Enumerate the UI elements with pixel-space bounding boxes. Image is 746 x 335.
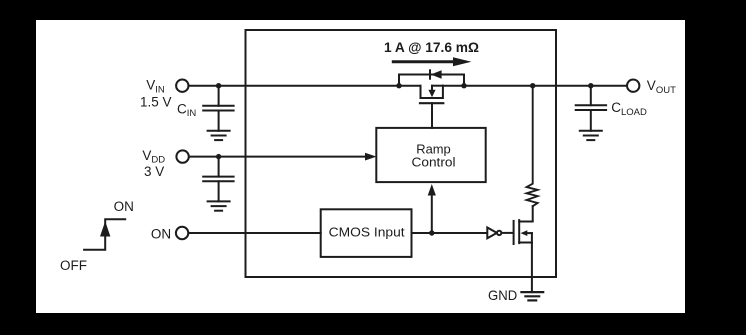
- junction CLOAD tap: [588, 83, 593, 88]
- wire VDD rail: [189, 156, 366, 158]
- wire Q2 source to GND: [531, 243, 533, 293]
- svg-text:Control: Control: [412, 156, 456, 170]
- arrow into Ramp Control: [365, 153, 377, 161]
- capacitor CIN: [203, 106, 233, 111]
- arrow up to Ramp Control: [428, 184, 436, 233]
- body diode D1: [399, 70, 464, 86]
- resistor R1: [527, 86, 538, 207]
- terminal VOUT: [627, 80, 639, 92]
- wire rail to VOUT: [443, 85, 627, 87]
- wire CIN lead bottom: [218, 111, 220, 131]
- block Ramp Control: [376, 128, 485, 182]
- capacitor CVDD: [203, 157, 233, 202]
- svg-text:1.5 V: 1.5 V: [140, 95, 172, 110]
- terminal VDD: [176, 150, 188, 162]
- block IC boundary: [246, 30, 557, 277]
- wire Q2 drain to R1: [531, 233, 533, 242]
- svg-text:CMOS Input: CMOS Input: [329, 226, 406, 240]
- capacitor CLOAD: [576, 86, 606, 131]
- block CMOS Input: [321, 209, 412, 257]
- junction CVDD tap: [216, 154, 221, 159]
- current arrow: [393, 57, 471, 66]
- transistor Q1 PMOS pass FET: [420, 86, 443, 128]
- svg-text:ON: ON: [114, 199, 134, 214]
- junction ramp tap: [429, 230, 434, 235]
- svg-text:GND: GND: [488, 287, 517, 303]
- terminal ON: [176, 227, 188, 239]
- junction CIN tap: [216, 83, 221, 88]
- svg-text:OFF: OFF: [60, 258, 87, 273]
- wire VIN rail: [189, 85, 421, 87]
- wire CIN lead top: [218, 86, 220, 106]
- buffer U2: [487, 228, 513, 239]
- svg-text:3 V: 3 V: [144, 164, 164, 179]
- junction Q1 source: [396, 83, 401, 88]
- wire CMOS Input to buffer: [412, 232, 488, 234]
- transistor Q2 NMOS: [514, 220, 532, 244]
- svg-text:Ramp: Ramp: [416, 143, 451, 157]
- ground CIN: [208, 131, 230, 140]
- junction R1 tap: [530, 83, 535, 88]
- junction Q1 drain: [461, 83, 466, 88]
- wire ON to CMOS Input: [189, 232, 321, 234]
- terminal VIN: [176, 80, 188, 92]
- svg-text:1 A @ 17.6 mΩ: 1 A @ 17.6 mΩ: [384, 40, 479, 55]
- waveform ON/OFF step: [84, 219, 125, 250]
- ground CLOAD: [580, 131, 602, 140]
- svg-text:ON: ON: [151, 227, 171, 242]
- ground CVDD: [208, 201, 230, 210]
- ground GND: [521, 292, 543, 300]
